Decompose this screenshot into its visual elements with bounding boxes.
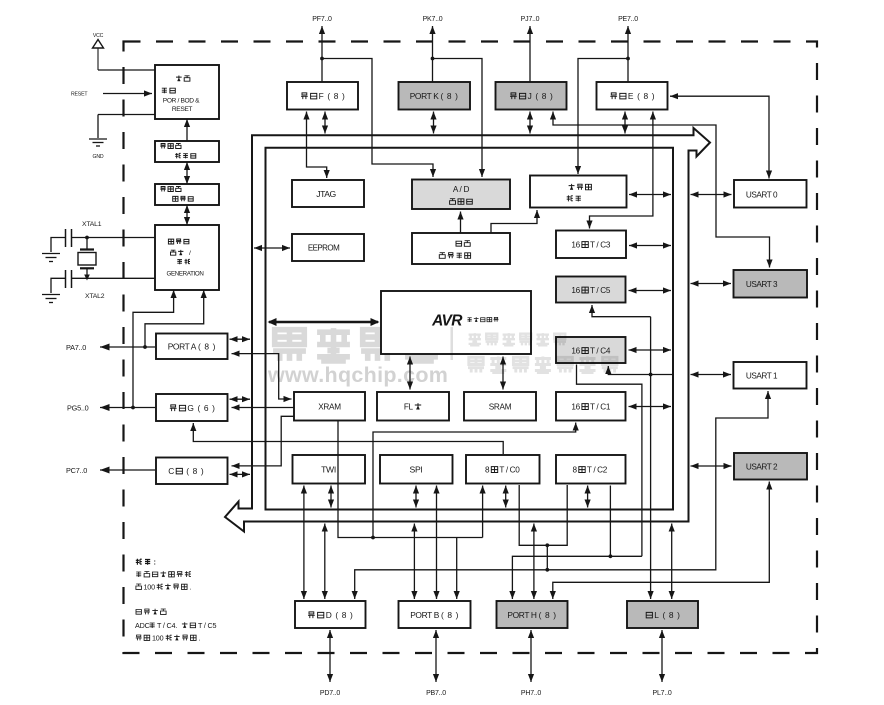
pin line PC7..0 <box>100 467 155 474</box>
wire PK branch to ADC <box>433 59 486 178</box>
VCC label <box>93 33 104 39</box>
wire port G TOSC clock <box>190 423 503 454</box>
capacitor C1 <box>66 229 72 247</box>
svg-text:PH7..0: PH7..0 <box>521 690 542 697</box>
analog comparator box <box>530 176 627 208</box>
pin label PF7..0 <box>312 16 332 23</box>
pin label PJ7..0 <box>521 16 540 23</box>
svg-text:GND: GND <box>93 154 104 160</box>
wire h1 to port B <box>454 538 460 600</box>
double arrow T/C5 to bus <box>629 287 672 293</box>
svg-text:PORT K ( 8 ): PORT K ( 8 ) <box>410 91 458 101</box>
wire SPI to port B <box>433 486 439 600</box>
double arrow T/C1 to bus <box>629 403 672 409</box>
XTAL1 label <box>82 221 102 228</box>
svg-text:POR / BOD &: POR / BOD & <box>163 98 200 105</box>
timer 8bit T/C2 box <box>556 455 626 484</box>
svg-text:PG5..0: PG5..0 <box>67 404 89 413</box>
svg-text:T / C2: T / C2 <box>587 465 608 474</box>
svg-text:PJ7..0: PJ7..0 <box>521 16 540 23</box>
svg-text:100: 100 <box>144 583 156 592</box>
pin label PB7..0 <box>426 690 446 697</box>
svg-text:( 8 ): ( 8 ) <box>184 466 204 476</box>
oscillator circuit clock generation box <box>155 225 219 290</box>
watchdog timer box <box>155 141 219 162</box>
double arrow port F to bus <box>322 112 328 134</box>
wire T/C1 to distribution <box>373 423 579 538</box>
double arrow SPI to bus <box>413 486 419 508</box>
pin line PA7..0 <box>100 344 155 351</box>
timer 16bit T/C4 box <box>556 337 626 363</box>
wire PE branch to comparator <box>575 59 628 175</box>
wire T/C4 to h3 <box>577 365 642 557</box>
svg-text:/: / <box>189 250 191 257</box>
svg-text:XRAM: XRAM <box>318 403 341 412</box>
double arrow port C to bus <box>230 471 251 477</box>
wire port E to timer3 <box>586 112 656 229</box>
svg-text:RESET: RESET <box>71 92 88 98</box>
data bus loop with arrowheads <box>225 128 710 532</box>
pin label PE7..0 <box>618 16 638 23</box>
double arrow EEPROM to bus <box>254 245 290 251</box>
wire XRAM to port G <box>232 404 295 410</box>
PORT B box <box>399 601 471 628</box>
thick double arrow CPU to bus <box>268 318 380 326</box>
double arrow port K to bus <box>430 112 436 134</box>
USART3 box <box>734 270 808 298</box>
wire h3 distribution <box>509 556 642 599</box>
svg-text:T / C3: T / C3 <box>590 240 611 249</box>
double arrow USART0 to bus <box>691 191 732 197</box>
wire C1 to ground <box>51 238 66 253</box>
svg-text:.: . <box>199 634 201 643</box>
GND wire <box>98 115 155 139</box>
pin label PK7..0 <box>423 16 443 23</box>
note line 5 <box>135 621 216 630</box>
wire USART1 to port D <box>352 391 771 599</box>
svg-text:TWI: TWI <box>321 465 336 475</box>
wire T/C2 to h3 <box>609 486 613 559</box>
svg-text:L ( 8 ): L ( 8 ) <box>654 610 680 620</box>
clock wire OSC to port A line <box>143 290 207 349</box>
pin line PK7..0 <box>429 26 435 82</box>
svg-text:USART 0: USART 0 <box>746 191 778 200</box>
svg-text:XTAL2: XTAL2 <box>85 293 105 300</box>
svg-text:PL7..0: PL7..0 <box>652 690 671 697</box>
wire T/C4 to bus and port L <box>605 317 672 599</box>
pin line PH7..0 <box>528 630 534 682</box>
double arrow USART2 to bus <box>691 463 732 469</box>
PORT H box <box>497 601 568 628</box>
pin label PG5..0 <box>67 404 89 413</box>
double arrow CPU to SRAM <box>500 357 506 390</box>
pin label PL7..0 <box>652 690 671 697</box>
pin line PF7..0 <box>319 26 325 82</box>
svg-text:SPI: SPI <box>410 465 423 475</box>
svg-text:EEPROM: EEPROM <box>308 244 340 253</box>
port J box <box>496 82 567 110</box>
pin line PB7..0 <box>433 630 439 682</box>
ground symbol XTAL1 <box>42 254 60 262</box>
svg-text:RESET: RESET <box>172 106 193 113</box>
svg-text:T / C0: T / C0 <box>499 465 520 474</box>
pin line PE7..0 <box>625 26 631 82</box>
svg-text:100: 100 <box>152 634 164 643</box>
RESET label <box>71 92 88 98</box>
timer 16bit T/C1 box <box>556 392 626 421</box>
svg-text:D ( 8 ): D ( 8 ) <box>326 610 353 620</box>
wire port J to USART3 <box>550 112 773 268</box>
svg-text:USART 3: USART 3 <box>746 280 778 289</box>
svg-text:www.hqchip.com: www.hqchip.com <box>267 363 448 387</box>
wire WDO to WDT <box>184 162 190 184</box>
svg-text:AVR: AVR <box>431 313 463 330</box>
wire reference to ADC <box>457 212 463 234</box>
wire TWI to port D <box>301 486 307 600</box>
port E box <box>597 82 668 110</box>
svg-text:PA7..0: PA7..0 <box>66 343 86 352</box>
wire stub h2 to h4 <box>545 543 549 569</box>
double arrow CPU to FLASH <box>407 357 413 390</box>
timer 16bit T/C5 box <box>556 277 626 303</box>
SRAM box <box>464 392 536 421</box>
VCC wire to POR <box>98 69 155 71</box>
capacitor C2 <box>66 270 72 288</box>
pin line PG5..0 <box>100 404 155 411</box>
svg-text:PC7..0: PC7..0 <box>66 466 87 475</box>
svg-text:E ( 8 ): E ( 8 ) <box>628 91 655 101</box>
double arrow port L to bus <box>669 524 675 600</box>
note line 2 <box>136 571 191 577</box>
double arrow port H to bus <box>531 524 537 600</box>
wire PORT A to XRAM <box>232 351 292 403</box>
svg-text:16: 16 <box>571 286 580 295</box>
SPI box <box>380 455 453 484</box>
watermark hqchip back <box>267 328 448 387</box>
note line 3 <box>136 583 192 592</box>
clock wire OSC to port G <box>131 290 177 409</box>
svg-text:SRAM: SRAM <box>489 403 512 412</box>
double arrow port J to bus <box>527 112 533 134</box>
USART1 box <box>734 362 807 389</box>
pin line PJ7..0 <box>527 26 533 82</box>
XTAL1 wire <box>72 236 155 240</box>
watchdog oscillator box <box>155 184 219 205</box>
svg-text:C: C <box>168 466 174 476</box>
svg-text:J ( 8 ): J ( 8 ) <box>528 91 553 101</box>
svg-text:16: 16 <box>571 346 580 355</box>
timer 8bit T/C0 box <box>466 455 540 484</box>
wire reference to comparator <box>491 210 540 233</box>
svg-text:USART 2: USART 2 <box>746 463 778 472</box>
wire port F to JTAG <box>303 112 329 179</box>
dashed boundary frame <box>124 42 818 654</box>
svg-text:FL: FL <box>404 402 414 411</box>
svg-text:.: . <box>190 583 192 592</box>
svg-text:16: 16 <box>571 402 580 411</box>
port C box <box>156 458 228 485</box>
internal bandgap reference box <box>412 233 510 264</box>
power supervision POR/BOD box <box>155 65 219 119</box>
AVR CPU box <box>381 291 531 354</box>
pin label PD7..0 <box>320 690 341 697</box>
wire T/C5 feed <box>589 305 651 317</box>
svg-text:G ( 6 ): G ( 6 ) <box>187 403 215 413</box>
svg-text:A / D: A / D <box>453 185 470 194</box>
watermark hqchip front <box>451 327 618 373</box>
double arrow TWI to bus <box>328 486 334 508</box>
svg-text:PORT A ( 8 ): PORT A ( 8 ) <box>168 341 216 351</box>
svg-text:VCC: VCC <box>93 33 104 39</box>
svg-text:PB7..0: PB7..0 <box>426 690 446 697</box>
double arrow comparator to bus <box>629 191 671 197</box>
crystal Y1 <box>78 238 96 276</box>
svg-text:T / C4.: T / C4. <box>157 621 177 630</box>
pin label PH7..0 <box>521 690 542 697</box>
wire C2 to ground <box>51 278 66 293</box>
ground symbol GND <box>89 139 107 146</box>
port G box <box>156 394 228 421</box>
wire XRAM to port C <box>232 416 295 469</box>
double arrow T/C0 to bus <box>503 486 509 508</box>
svg-text:F ( 8 ): F ( 8 ) <box>319 91 345 101</box>
double arrow port G to bus <box>230 396 251 402</box>
wire USART2 to port H <box>550 482 773 600</box>
svg-text:PORT B ( 8 ): PORT B ( 8 ) <box>410 610 458 620</box>
XTAL2 label <box>85 293 105 300</box>
svg-text:PORT H ( 8 ): PORT H ( 8 ) <box>507 610 556 620</box>
svg-text:ADC: ADC <box>135 621 150 630</box>
FLASH box <box>377 392 449 421</box>
wire distribution h1 <box>338 421 483 540</box>
XTAL2 wire <box>72 275 155 281</box>
svg-text:T / C4: T / C4 <box>590 346 611 355</box>
double arrow T/C2 to bus <box>585 486 591 508</box>
svg-text:PD7..0: PD7..0 <box>320 690 341 697</box>
svg-text:PF7..0: PF7..0 <box>312 16 332 23</box>
wire PF branch to ADC <box>322 59 436 178</box>
note line 6 <box>136 634 201 643</box>
double arrow T/C3 to bus <box>629 242 671 248</box>
pin label PC7..0 <box>66 466 87 475</box>
pin line PL7..0 <box>659 630 665 682</box>
JTAG box U-JTAG <box>292 180 364 207</box>
pin line PD7..0 <box>327 630 333 682</box>
wire OSC to WDO <box>184 205 190 225</box>
TWI box <box>293 455 366 484</box>
wire port E to USART0 <box>670 93 772 178</box>
double arrow port D to bus <box>322 524 328 600</box>
svg-text:T / C5: T / C5 <box>198 621 216 630</box>
wire T/C0 to T/C2 h2 <box>519 485 567 545</box>
A/D converter box <box>412 180 510 210</box>
svg-text:16: 16 <box>571 240 580 249</box>
double arrow T/C4 to bus <box>629 347 672 353</box>
PORT A box <box>156 334 228 360</box>
svg-text:USART 1: USART 1 <box>746 372 778 381</box>
note heading <box>136 557 156 566</box>
svg-text:T / C1: T / C1 <box>590 402 611 411</box>
ground symbol XTAL2 <box>42 295 60 303</box>
wire WDT to POR <box>184 119 190 141</box>
double arrow port B to bus <box>411 524 417 600</box>
svg-text:PE7..0: PE7..0 <box>618 16 638 23</box>
port D box <box>295 601 366 628</box>
timer 16bit T/C3 box <box>556 231 626 259</box>
USART2 box <box>734 453 807 480</box>
double arrow USART3 to bus <box>691 280 732 286</box>
double arrow PORT A to bus <box>230 336 251 342</box>
PORT K box <box>399 82 471 110</box>
double arrow USART1 to bus <box>691 371 732 377</box>
double arrow port E to bus <box>622 112 628 134</box>
VCC symbol <box>93 40 104 71</box>
pin label PA7..0 <box>66 343 86 352</box>
svg-text::: : <box>154 557 156 566</box>
note line 4 <box>136 609 166 615</box>
port L box <box>627 601 698 628</box>
XRAM box <box>294 392 365 421</box>
svg-text:JTAG: JTAG <box>316 189 336 199</box>
GND label <box>93 154 104 160</box>
wire h1 to T/C0 <box>480 486 486 538</box>
RESET wire <box>103 90 152 96</box>
port F box <box>287 82 358 110</box>
USART0 box <box>734 180 807 208</box>
svg-text:XTAL1: XTAL1 <box>82 221 102 228</box>
svg-text:GENERATION: GENERATION <box>167 270 204 277</box>
svg-text:T / C5: T / C5 <box>590 286 611 295</box>
svg-text:PK7..0: PK7..0 <box>423 16 443 23</box>
EEPROM box <box>292 234 364 261</box>
